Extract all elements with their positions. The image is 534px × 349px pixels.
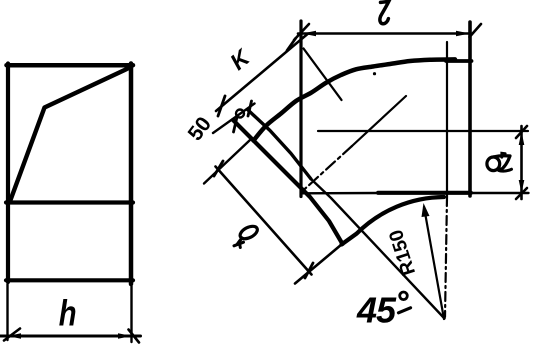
h dim right tick	[129, 330, 140, 343]
label 9 slanted (custom glyph)	[234, 224, 259, 248]
h dim right arrow	[118, 333, 132, 339]
left rectangle middle divider	[6, 200, 133, 204]
K dimension line	[216, 34, 308, 111]
right q dim bottom tick	[516, 188, 527, 199]
45 degree ray to vertex	[311, 179, 445, 319]
K dim left tick	[218, 96, 225, 116]
50 dimension line	[213, 104, 255, 134]
inner arc	[342, 197, 445, 245]
R150 leader arrow	[422, 203, 430, 217]
left rectangle right edge	[129, 64, 134, 285]
slanted q dimension line	[216, 167, 312, 275]
svg-text:R150: R150	[385, 227, 420, 278]
right q dim top tick	[516, 126, 527, 138]
h extension line right	[130, 286, 132, 342]
outer arc	[254, 59, 456, 140]
h extension line left	[6, 284, 8, 340]
l dim right tick	[470, 24, 482, 37]
bottom wall thin left part	[302, 192, 380, 195]
slanted q dim tick 2	[305, 263, 313, 278]
top wall	[446, 59, 472, 63]
svg-text:K: K	[225, 44, 256, 75]
inclined centerline solid part	[352, 96, 406, 146]
bottom wall extension right	[471, 192, 529, 194]
label 9 right (custom glyph)	[487, 153, 512, 171]
50 dim tick 2	[248, 101, 252, 116]
svg-text:50: 50	[184, 113, 216, 145]
45 deg tick under degree sign	[399, 308, 411, 313]
left vertical extension line	[299, 21, 302, 197]
dust dot	[373, 72, 376, 75]
horizontal centerline	[318, 130, 528, 132]
slanted q dim tick 1	[214, 161, 223, 176]
R150 leader	[424, 207, 444, 319]
right q dim top arrow	[519, 132, 525, 146]
h dim left arrow	[8, 333, 22, 339]
K extension diagonal	[304, 49, 342, 101]
h dimension line	[0, 335, 141, 338]
label l (script ell)	[380, 1, 389, 23]
l dimension line	[298, 32, 471, 35]
inclined seam edge B	[248, 110, 311, 179]
slanted q extension line 1	[204, 140, 250, 184]
inner corner extension	[295, 245, 342, 284]
K dim right tick	[287, 39, 296, 51]
diagonal fold line	[11, 67, 132, 200]
left rectangle bottom edge	[6, 278, 133, 282]
left rectangle left edge	[6, 64, 10, 283]
left rectangle top edge	[7, 63, 134, 68]
svg-text:45: 45	[356, 290, 397, 331]
50 dim tick 1	[234, 117, 238, 132]
right q dimension line	[520, 126, 523, 199]
l dim left tick	[294, 24, 309, 40]
bottom wall thick part	[378, 191, 471, 195]
right q dim bottom arrow	[519, 180, 525, 193]
wired edge circle	[236, 110, 244, 118]
l dim right arrow	[456, 31, 470, 37]
inclined centerline dash-dot part	[302, 146, 352, 192]
l dim left arrow	[302, 31, 316, 37]
right face	[468, 22, 472, 196]
inclined end face (edge A)	[233, 120, 343, 244]
svg-text:h: h	[59, 293, 77, 334]
h dim left tick	[4, 329, 20, 341]
bend radial line (vertical, solid part)	[446, 42, 448, 197]
bend radial line (dash-dot to vertex)	[445, 197, 447, 317]
